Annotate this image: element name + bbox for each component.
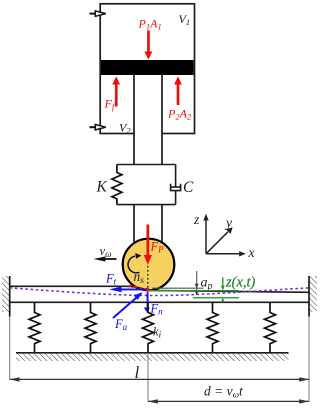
arrow F_a <box>113 292 143 318</box>
arrow v <box>94 256 117 261</box>
foundation spring 5 <box>265 302 276 353</box>
right wall hatch <box>309 276 317 312</box>
arrow P1A1 <box>145 31 153 60</box>
right wall line <box>308 276 310 317</box>
foundation spring 4 <box>207 302 218 353</box>
piston rod lower <box>134 205 162 244</box>
arrow P2A2 <box>174 76 182 105</box>
ground line <box>16 352 289 354</box>
cylinder bottom opening mask <box>135 132 161 136</box>
svg-text:z(x,t): z(x,t) <box>225 275 256 291</box>
left wall line <box>9 276 11 317</box>
a_p dimension line <box>196 271 198 295</box>
beam top line right <box>148 290 310 292</box>
arrow F_n <box>144 292 150 313</box>
arrow F_P <box>144 225 152 266</box>
wheel <box>123 239 175 291</box>
z(x,t) dimension <box>222 278 224 303</box>
ground hatch <box>16 354 289 361</box>
svg-text:l: l <box>135 363 140 382</box>
beam top line left <box>10 286 148 290</box>
green line bottom <box>193 297 239 299</box>
extension line center <box>147 353 149 401</box>
beam bottom line <box>10 301 309 303</box>
rotation arrow n_s <box>128 253 141 273</box>
K-C box <box>117 165 176 205</box>
dimension d <box>148 399 309 403</box>
spring K <box>112 165 122 205</box>
arrow F_t <box>109 287 147 293</box>
cylinder body <box>100 4 194 134</box>
gray reference line a_p <box>152 287 204 289</box>
piston <box>101 60 194 75</box>
red contact dot <box>145 288 149 292</box>
port arrow bottom <box>90 125 106 130</box>
svg-text:z: z <box>193 212 200 227</box>
dimension l <box>10 377 309 381</box>
port arrow top <box>90 11 106 16</box>
svg-text:C: C <box>183 179 194 196</box>
coordinate axes <box>206 219 240 254</box>
arrow Ff <box>112 76 120 106</box>
piston rod upper <box>134 75 162 165</box>
svg-text:y: y <box>224 215 232 230</box>
extension line left <box>9 317 11 380</box>
svg-text:K: K <box>96 179 108 196</box>
foundation spring 2 <box>85 302 96 353</box>
extension line right <box>308 317 310 402</box>
purple deflection curve <box>10 288 309 296</box>
svg-text:x: x <box>248 245 255 260</box>
left wall hatch <box>2 276 10 312</box>
wheel centerline dotted <box>147 266 149 290</box>
damper C <box>170 165 181 205</box>
red contact dashes <box>129 286 148 291</box>
foundation spring 3 k_i <box>143 302 154 353</box>
green line top <box>148 290 240 292</box>
foundation spring 1 <box>29 302 40 353</box>
